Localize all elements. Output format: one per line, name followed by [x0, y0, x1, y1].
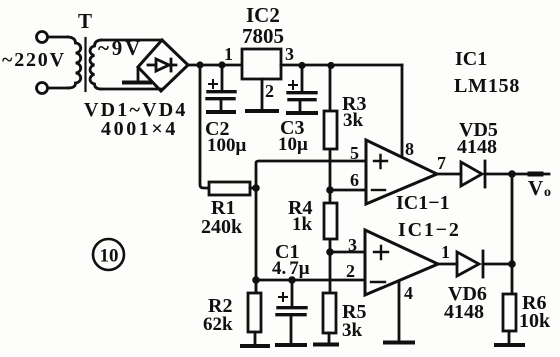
bridge rectifier VD1-VD4 diamond [138, 40, 188, 91]
svg-text:3k: 3k [342, 320, 363, 341]
resistor R4 body [324, 203, 337, 239]
svg-text:T: T [78, 9, 92, 33]
svg-text:7805: 7805 [242, 24, 284, 48]
terminal top-left [37, 32, 48, 43]
transformer T primary winding [68, 37, 81, 88]
op-amp U1B IC1-2 [365, 230, 438, 295]
resistor R2 body [248, 293, 261, 332]
svg-text:o: o [544, 185, 551, 200]
svg-text:6: 6 [350, 170, 359, 190]
ground (pin4) [385, 341, 413, 345]
svg-text:1k: 1k [292, 214, 313, 235]
ground (C2) [208, 110, 234, 114]
wire signal line vertical [256, 161, 366, 293]
svg-text:3: 3 [285, 44, 294, 64]
ground (C1) [277, 343, 305, 347]
svg-text:2: 2 [265, 81, 274, 101]
svg-text:4148: 4148 [457, 136, 497, 158]
node divider B pin3 [326, 248, 334, 256]
node VD5 out [508, 170, 516, 178]
ground (bridge) [137, 68, 140, 80]
svg-text:~9V: ~9V [98, 36, 143, 60]
svg-text:8: 8 [405, 139, 414, 159]
svg-text:2: 2 [346, 261, 355, 281]
svg-text:10μ: 10μ [278, 134, 308, 155]
wire pin6 [330, 189, 366, 192]
svg-text:10: 10 [100, 246, 119, 267]
node C1 top [288, 276, 296, 284]
node pin2 branch [252, 276, 260, 284]
svg-text:V: V [528, 176, 543, 200]
wire IC2 out rail [281, 64, 402, 67]
svg-text:62k: 62k [203, 314, 233, 335]
wire [48, 36, 68, 39]
resistor R1 body [209, 182, 250, 195]
terminal bottom-left [37, 83, 48, 94]
wire [485, 173, 512, 176]
svg-text:3k: 3k [343, 110, 364, 131]
resistor R2 lead [255, 280, 258, 293]
svg-text:10k: 10k [519, 310, 551, 332]
op-amp U1A IC1-1 [366, 140, 437, 204]
IC2 pin2 lead [261, 79, 264, 109]
ground (C3) [288, 111, 316, 115]
node R1 right [252, 184, 260, 192]
svg-text:240k: 240k [201, 216, 243, 238]
resistor R5 lead [329, 252, 332, 293]
ground (R2) [242, 344, 268, 348]
resistor R4 leads [329, 190, 332, 252]
svg-text:7: 7 [437, 153, 446, 173]
resistor R5 body [323, 293, 336, 333]
node C3 top [298, 62, 305, 69]
wire out pin1 [438, 263, 457, 266]
svg-text:1: 1 [441, 242, 450, 262]
diode VD6 [457, 252, 479, 276]
svg-text:4.7μ: 4.7μ [272, 258, 310, 279]
svg-text:IC1: IC1 [455, 48, 487, 70]
svg-text:4: 4 [404, 283, 413, 303]
node (unregulated branch) [196, 61, 203, 68]
node VD6 out [508, 260, 516, 268]
resistor R3 body [324, 111, 337, 149]
wire pin8 drop [401, 65, 404, 156]
wire secondary bottom to bridge [101, 88, 161, 91]
wire [483, 263, 512, 266]
svg-text:4001×4: 4001×4 [101, 118, 178, 140]
wire [48, 87, 68, 90]
svg-text:1: 1 [224, 44, 233, 64]
svg-text:4148: 4148 [444, 301, 484, 323]
svg-text:LM158: LM158 [454, 75, 520, 97]
transformer T secondary winding [90, 40, 101, 89]
figure number circle [93, 239, 124, 270]
ground (R5) [315, 343, 337, 347]
ground (IC2) [247, 109, 277, 113]
wire R1 to node [250, 187, 256, 190]
transformer core [84, 38, 86, 91]
wire pin3 [330, 251, 365, 254]
wire output rail [511, 174, 514, 294]
wire bridge output to IC2 [188, 64, 242, 67]
wire pin4 [398, 281, 401, 340]
svg-text:~220V: ~220V [2, 49, 66, 71]
resistor R6 body [503, 294, 516, 331]
resistor R3 leads [329, 65, 332, 190]
bridge inner diode [148, 64, 156, 67]
wire branch down to R1 [200, 65, 209, 188]
wire out pin7 [437, 173, 460, 176]
svg-text:100μ: 100μ [207, 135, 247, 156]
diode VD5 [461, 162, 482, 186]
capacitor C2 [221, 65, 224, 90]
wire to Vo [512, 173, 549, 176]
capacitor C3 [301, 65, 304, 91]
node divider A pin6 [326, 186, 334, 194]
svg-text:IC1−2: IC1−2 [398, 219, 461, 241]
ground (R6) [496, 343, 523, 347]
node R3 top [327, 62, 334, 69]
node C2 top [218, 61, 225, 68]
svg-text:5: 5 [350, 143, 359, 163]
svg-text:IC1−1: IC1−1 [396, 192, 450, 214]
IC2 7805 box [242, 49, 281, 79]
wire pin2 line [256, 279, 364, 282]
wire secondary top to bridge [101, 39, 162, 42]
capacitor C1 [291, 280, 294, 306]
svg-text:3: 3 [348, 235, 357, 255]
